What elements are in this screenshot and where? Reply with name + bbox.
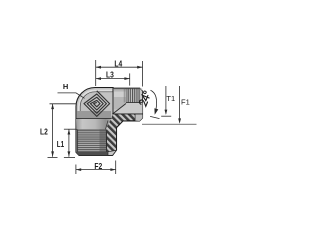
- bottom port: left edge line: [77, 130, 79, 153]
- cone line extension tick: [150, 116, 159, 118]
- L4 dimension line: [96, 66, 143, 68]
- svg-text:F1: F1: [181, 98, 190, 107]
- svg-text:T1: T1: [166, 94, 175, 103]
- F2 dimension line: [76, 169, 116, 171]
- L2 top extension: [50, 103, 77, 105]
- port bottom outline: [112, 113, 142, 115]
- bottom port: shoulder cone: [76, 119, 111, 130]
- bottom port: right edge line of textured part: [105, 130, 107, 154]
- L1 bottom extension: [64, 157, 75, 159]
- elbow body silhouette: [76, 88, 143, 156]
- right port: thread end line: [138, 88, 140, 102]
- hatch inner bore outline: [117, 121, 136, 150]
- svg-text:L3: L3: [106, 69, 114, 79]
- F1 baseline (gray): [142, 123, 197, 125]
- L2 bottom extension: [48, 157, 58, 159]
- F1 leader line: [179, 86, 181, 123]
- H leader: [58, 93, 85, 98]
- right port: base collar: [114, 88, 126, 109]
- T1 baseline: [161, 115, 171, 117]
- bottom port: right side shading: [100, 130, 107, 154]
- bottom port: chamfer light piece: [108, 150, 116, 155]
- L3 extension line right: [129, 73, 131, 85]
- bottom port: shoulder right edge: [105, 121, 108, 130]
- L1 dimension line: [68, 129, 70, 157]
- section hatch band (L-shaped): [107, 114, 135, 155]
- body corner rim highlight: [79, 90, 112, 117]
- right port: thread top edge: [114, 88, 139, 90]
- svg-text:H: H: [63, 82, 68, 91]
- svg-text:L1: L1: [57, 139, 65, 149]
- L1 top extension: [64, 128, 76, 130]
- L3 dimension line: [96, 78, 130, 80]
- L4 extension line left: [95, 60, 97, 86]
- body block lower shading: [77, 111, 111, 118]
- bottom port: thread start line: [76, 129, 106, 131]
- svg-text:L4: L4: [114, 58, 122, 68]
- L4 extension line right: [142, 61, 144, 87]
- bottom port: bottom dark band: [76, 152, 108, 156]
- right port: sectioned tip bottom: [135, 114, 142, 121]
- bottom port: thread fine texture: [77, 130, 106, 154]
- right port: thread stripes: [126, 88, 139, 102]
- label 24deg (hand-drawn glyphs): [139, 91, 151, 107]
- body block bottom edge: [76, 117, 112, 119]
- right port: mid band top line: [126, 102, 142, 104]
- L2 dimension line: [52, 104, 54, 157]
- right port: tip face top: [140, 88, 143, 102]
- svg-text:L2: L2: [40, 126, 48, 136]
- F2 extension lines: [75, 165, 77, 175]
- junction chamfer diagonal: [113, 104, 126, 115]
- body/port junction line: [112, 88, 114, 114]
- corner spiral (forged corner pattern): [84, 91, 110, 117]
- 24deg leader arc: [151, 90, 157, 110]
- right port: mid band (section top half): [113, 103, 143, 115]
- right port: collar groove: [114, 92, 126, 98]
- svg-text:F2: F2: [94, 161, 102, 171]
- T1 leader line: [165, 86, 167, 114]
